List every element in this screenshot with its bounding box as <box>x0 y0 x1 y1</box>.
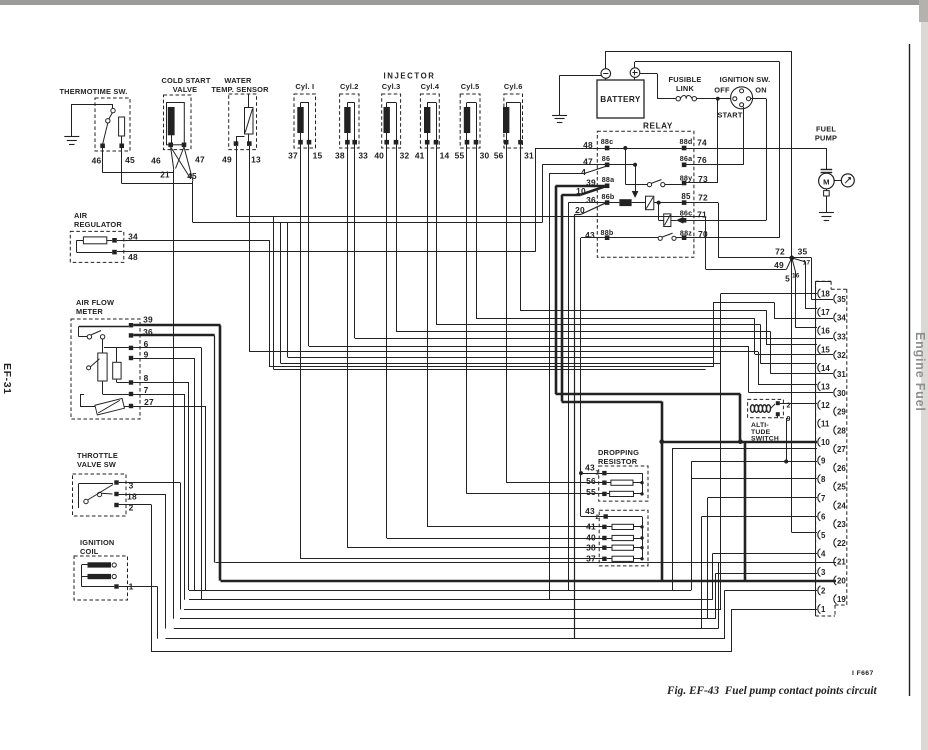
svg-text:TEMP. SENSOR: TEMP. SENSOR <box>211 85 269 94</box>
svg-text:THERMOTIME SW.: THERMOTIME SW. <box>59 87 127 96</box>
svg-text:86a: 86a <box>680 154 693 163</box>
svg-text:72: 72 <box>698 193 708 203</box>
svg-text:SWITCH: SWITCH <box>751 436 779 443</box>
svg-text:37: 37 <box>288 151 298 161</box>
svg-text:40: 40 <box>586 533 596 543</box>
svg-text:7: 7 <box>144 385 149 395</box>
svg-text:46: 46 <box>151 156 161 166</box>
svg-text:RESISTOR: RESISTOR <box>598 457 638 466</box>
svg-text:86b: 86b <box>602 192 615 201</box>
svg-text:EF-31: EF-31 <box>1 363 13 395</box>
svg-text:20: 20 <box>837 577 846 586</box>
svg-text:27: 27 <box>837 445 846 454</box>
svg-text:IGNITION SW.: IGNITION SW. <box>720 75 771 84</box>
svg-text:Cyl.5: Cyl.5 <box>461 82 480 91</box>
svg-text:2: 2 <box>821 587 826 596</box>
svg-text:43: 43 <box>585 230 595 240</box>
svg-text:43: 43 <box>585 506 595 516</box>
svg-text:11: 11 <box>821 420 830 429</box>
svg-text:34: 34 <box>837 314 846 323</box>
svg-text:16: 16 <box>821 327 830 336</box>
svg-text:COLD START: COLD START <box>161 76 210 85</box>
svg-text:31: 31 <box>837 370 846 379</box>
svg-text:3: 3 <box>821 568 826 577</box>
svg-text:88a: 88a <box>602 175 615 184</box>
svg-text:LINK: LINK <box>676 84 695 93</box>
svg-text:Cyl.6: Cyl.6 <box>504 82 523 91</box>
svg-text:9: 9 <box>821 457 826 466</box>
svg-text:PUMP: PUMP <box>815 134 837 143</box>
svg-text:46: 46 <box>92 156 102 166</box>
svg-text:39: 39 <box>143 315 153 325</box>
svg-text:4: 4 <box>581 167 586 177</box>
svg-text:41: 41 <box>586 522 596 532</box>
svg-text:14: 14 <box>440 151 450 161</box>
svg-text:29: 29 <box>837 408 846 417</box>
svg-text:45: 45 <box>125 155 135 165</box>
svg-text:RELAY: RELAY <box>643 122 673 131</box>
svg-text:38: 38 <box>586 542 596 552</box>
svg-text:35: 35 <box>798 247 808 257</box>
svg-text:74: 74 <box>697 138 707 148</box>
svg-text:21: 21 <box>160 171 170 180</box>
svg-text:13: 13 <box>821 382 830 391</box>
svg-text:COIL: COIL <box>80 547 99 556</box>
svg-text:M: M <box>823 177 830 186</box>
svg-text:I F667: I F667 <box>852 670 874 677</box>
svg-text:86c: 86c <box>680 209 693 218</box>
svg-text:85: 85 <box>681 192 691 201</box>
svg-text:AIR: AIR <box>74 211 88 220</box>
svg-text:24: 24 <box>837 501 846 510</box>
svg-text:48: 48 <box>128 252 138 262</box>
svg-text:35: 35 <box>837 295 846 304</box>
svg-text:55: 55 <box>586 487 596 497</box>
svg-text:FUSIBLE: FUSIBLE <box>668 75 701 84</box>
svg-text:BATTERY: BATTERY <box>600 95 641 104</box>
svg-text:15: 15 <box>313 151 323 161</box>
svg-text:76: 76 <box>697 155 707 165</box>
svg-text:19: 19 <box>837 595 846 604</box>
svg-text:30: 30 <box>837 389 846 398</box>
svg-text:33: 33 <box>837 332 846 341</box>
svg-text:6: 6 <box>821 512 826 521</box>
svg-text:5: 5 <box>821 531 826 540</box>
svg-text:72: 72 <box>775 247 785 257</box>
svg-text:88d: 88d <box>680 137 693 146</box>
svg-text:28: 28 <box>837 426 846 435</box>
svg-text:38: 38 <box>335 151 345 161</box>
svg-text:Cyl.2: Cyl.2 <box>340 82 359 91</box>
svg-text:49: 49 <box>774 260 784 270</box>
svg-text:2: 2 <box>596 515 600 521</box>
svg-text:START: START <box>717 111 742 120</box>
svg-text:ON: ON <box>755 86 767 95</box>
svg-text:METER: METER <box>76 307 103 316</box>
svg-text:8: 8 <box>144 373 149 383</box>
svg-text:9: 9 <box>786 416 790 423</box>
svg-text:THROTTLE: THROTTLE <box>77 451 118 460</box>
svg-text:REGULATOR: REGULATOR <box>74 220 122 229</box>
svg-text:12: 12 <box>821 401 830 410</box>
svg-text:Engine Fuel: Engine Fuel <box>913 332 927 412</box>
svg-text:47: 47 <box>195 155 205 165</box>
svg-text:OFF: OFF <box>714 86 730 95</box>
svg-text:15: 15 <box>821 345 830 354</box>
svg-text:8: 8 <box>821 475 826 484</box>
svg-text:25: 25 <box>837 483 846 492</box>
svg-text:Cyl.4: Cyl.4 <box>421 82 440 91</box>
svg-text:FUEL: FUEL <box>816 125 836 134</box>
svg-text:22: 22 <box>837 539 846 548</box>
svg-text:30: 30 <box>480 151 490 161</box>
svg-text:DROPPING: DROPPING <box>598 448 639 457</box>
svg-text:IGNITION: IGNITION <box>80 538 114 547</box>
svg-text:21: 21 <box>837 558 846 567</box>
svg-text:Fig. EF-43 Fuel pump contact: Fig. EF-43 Fuel pump contact points circ… <box>666 685 878 697</box>
svg-text:1: 1 <box>821 605 826 614</box>
svg-text:88c: 88c <box>601 137 614 146</box>
svg-text:27: 27 <box>144 397 154 407</box>
svg-text:10: 10 <box>821 438 830 447</box>
svg-text:23: 23 <box>837 520 846 529</box>
svg-text:31: 31 <box>524 151 534 161</box>
svg-text:41: 41 <box>415 151 425 161</box>
svg-text:40: 40 <box>374 151 384 161</box>
svg-text:43: 43 <box>585 463 595 473</box>
svg-text:14: 14 <box>821 364 830 373</box>
svg-text:Cyl. I: Cyl. I <box>295 82 314 91</box>
svg-text:AIR FLOW: AIR FLOW <box>76 298 114 307</box>
svg-text:37: 37 <box>586 553 596 563</box>
svg-text:49: 49 <box>222 155 232 165</box>
svg-text:32: 32 <box>400 151 410 161</box>
svg-text:56: 56 <box>494 151 504 161</box>
svg-text:INJECTOR: INJECTOR <box>383 72 435 81</box>
svg-text:56: 56 <box>586 476 596 486</box>
svg-text:5: 5 <box>785 274 790 284</box>
svg-text:55: 55 <box>455 151 465 161</box>
svg-text:18: 18 <box>821 290 830 299</box>
svg-text:36: 36 <box>586 195 596 205</box>
svg-text:VALVE SW: VALVE SW <box>77 460 116 469</box>
svg-text:4: 4 <box>821 549 826 558</box>
svg-text:18: 18 <box>127 492 137 502</box>
svg-text:17: 17 <box>803 260 811 267</box>
svg-text:VALVE: VALVE <box>173 85 198 94</box>
svg-text:86: 86 <box>602 154 610 163</box>
svg-text:Cyl.3: Cyl.3 <box>382 82 401 91</box>
svg-text:17: 17 <box>821 308 830 317</box>
svg-text:32: 32 <box>837 351 846 360</box>
svg-text:33: 33 <box>358 151 368 161</box>
svg-text:13: 13 <box>251 155 261 165</box>
svg-text:26: 26 <box>837 464 846 473</box>
svg-text:WATER: WATER <box>224 76 252 85</box>
svg-text:7: 7 <box>821 494 826 503</box>
